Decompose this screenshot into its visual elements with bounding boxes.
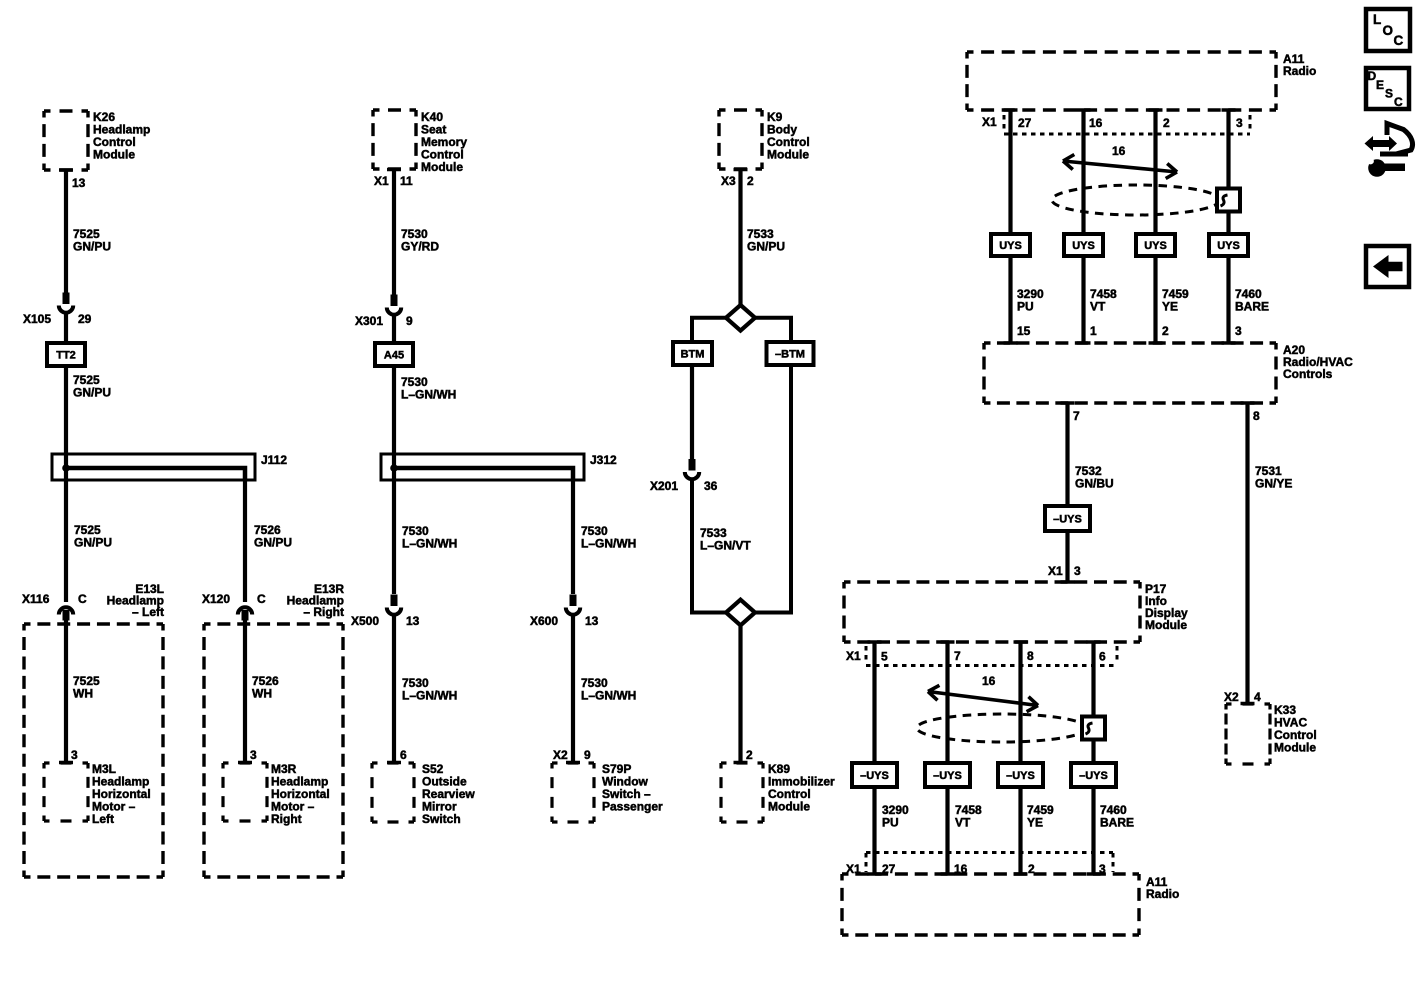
- svg-text:15: 15: [1017, 324, 1031, 338]
- inline code -UYS wire2: [925, 763, 970, 787]
- svg-text:– Right: – Right: [303, 605, 344, 619]
- wire 7526 GN/PU from J112 to X120: [243, 480, 247, 602]
- svg-text:L–GN/WH: L–GN/WH: [401, 388, 456, 402]
- svg-text:GN/PU: GN/PU: [73, 386, 111, 400]
- wire 7460 BARE from A11 pin 3: [1222, 108, 1236, 112]
- wire 3290 PU from P17 pin 5: [868, 640, 882, 644]
- module A11 Radio (bottom): [842, 872, 1139, 875]
- svg-text:6: 6: [1099, 650, 1106, 664]
- icon button back arrow: [1366, 246, 1409, 287]
- svg-text:X3: X3: [721, 174, 736, 188]
- module K33 HVAC Control Module: [1226, 702, 1270, 705]
- component E13R Headlamp - Right: [204, 622, 343, 625]
- svg-text:29: 29: [78, 312, 92, 326]
- svg-text:X105: X105: [23, 312, 51, 326]
- svg-text:3: 3: [1235, 324, 1242, 338]
- switch S52 Outside Rearview Mirror Switch: [372, 761, 414, 764]
- svg-text:Module: Module: [768, 800, 810, 814]
- svg-text:7: 7: [1073, 409, 1080, 423]
- svg-text:X500: X500: [351, 614, 379, 628]
- pin 3 of M3L: [59, 761, 73, 765]
- svg-text:3: 3: [1236, 116, 1243, 130]
- pin 6 of S52: [387, 761, 401, 765]
- svg-text:6: 6: [400, 748, 407, 762]
- inline code -UYS wire4: [1071, 763, 1116, 787]
- splice diamond upper: [726, 305, 755, 331]
- svg-text:GN/PU: GN/PU: [747, 240, 785, 254]
- wire 7525 GN/PU from J112 to X116: [64, 468, 68, 602]
- module K40 Seat Memory Control Module: [373, 108, 416, 111]
- svg-text:X201: X201: [650, 479, 678, 493]
- svg-text:E: E: [1376, 78, 1384, 92]
- svg-text:GN/PU: GN/PU: [73, 240, 111, 254]
- svg-text:16: 16: [1089, 116, 1103, 130]
- svg-text:16: 16: [982, 674, 996, 688]
- module P17 Info Display Module: [844, 580, 1140, 583]
- wire 7459 YE from A11 pin 2: [1149, 108, 1163, 112]
- connector X116 pin C: [63, 610, 70, 621]
- svg-text:L–GN/WH: L–GN/WH: [402, 689, 457, 703]
- component E13L Headlamp - Left: [24, 622, 163, 625]
- inline connector TT2: [47, 343, 85, 366]
- pin 3 of M3R: [238, 761, 252, 765]
- icon harness arrows and wrench: [1365, 136, 1398, 151]
- wire 7531 GN/YE from A20 pin 8 to K33: [1245, 403, 1249, 704]
- svg-text:X301: X301: [355, 314, 383, 328]
- inline code BTM: [673, 342, 712, 365]
- svg-text:8: 8: [1027, 649, 1034, 663]
- wire 7530 GY/RD from K40 to X301: [392, 170, 396, 296]
- svg-text:13: 13: [585, 614, 599, 628]
- svg-text:X1: X1: [846, 649, 861, 663]
- inline code -UYS wire1: [852, 763, 897, 787]
- svg-text:C: C: [257, 592, 266, 606]
- svg-text:7: 7: [954, 649, 961, 663]
- wire 7533 L-GN/VT from X201 to splice diamond: [692, 479, 727, 613]
- svg-text:16: 16: [1112, 144, 1126, 158]
- svg-text:Module: Module: [1274, 741, 1316, 755]
- connector X120 pin C: [242, 610, 249, 621]
- svg-text:PU: PU: [882, 816, 899, 830]
- svg-text:Right: Right: [271, 812, 302, 826]
- svg-text:BTM: BTM: [681, 349, 705, 361]
- svg-text:13: 13: [406, 614, 420, 628]
- switch S79P Window Switch - Passenger: [552, 761, 594, 764]
- wire from diamond to K89 pin 2: [738, 624, 742, 763]
- wire 7460 BARE from P17 pin 6: [1087, 640, 1101, 644]
- connector strip X1 of A11: [1004, 133, 1250, 136]
- svg-text:Radio: Radio: [1283, 64, 1316, 78]
- wire 7530 L-GN/WH from A45 to J312: [392, 366, 396, 470]
- connector X301 pin 9: [391, 295, 398, 307]
- svg-text:Module: Module: [1145, 618, 1187, 632]
- svg-text:1: 1: [1090, 324, 1097, 338]
- svg-text:WH: WH: [73, 687, 93, 701]
- wire to A11 pin 3: [1091, 787, 1095, 874]
- splice pack J312: [381, 454, 584, 480]
- svg-text:UYS: UYS: [1072, 240, 1095, 252]
- svg-text:9: 9: [584, 748, 591, 762]
- svg-text:BARE: BARE: [1235, 300, 1269, 314]
- svg-text:YE: YE: [1027, 816, 1043, 830]
- svg-text:BARE: BARE: [1100, 816, 1134, 830]
- wire 7533 GN/PU from K9 to splice diamond: [738, 170, 742, 307]
- wire to A20 pin 3: [1226, 256, 1230, 343]
- wire 7526 WH from X120 to M3R: [243, 619, 247, 763]
- svg-text:L: L: [1373, 12, 1381, 27]
- wire to A20 pin 1: [1081, 256, 1085, 343]
- svg-text:2: 2: [746, 748, 753, 762]
- svg-text:Radio: Radio: [1146, 887, 1179, 901]
- svg-text:GN/BU: GN/BU: [1075, 477, 1114, 491]
- wire from BTM to X201: [690, 363, 694, 460]
- svg-text:YE: YE: [1162, 300, 1178, 314]
- module K9 Body Control Module: [719, 108, 762, 111]
- inline code -UYS mid: [1045, 506, 1090, 531]
- connector strip X1 of P17: [866, 664, 1117, 667]
- svg-text:–BTM: –BTM: [775, 349, 805, 361]
- svg-text:O: O: [1383, 23, 1394, 38]
- inline code UYS wire3: [1136, 234, 1175, 256]
- connector X201 pin 36: [689, 459, 696, 471]
- svg-text:Passenger: Passenger: [602, 800, 663, 814]
- wire 7459 YE from P17 pin 8: [1014, 640, 1028, 644]
- pin X3 2 of K9: [734, 168, 748, 172]
- module A20 Radio/HVAC Controls: [984, 341, 1276, 344]
- svg-text:3: 3: [250, 748, 257, 762]
- pin 8 of A20: [1241, 401, 1255, 405]
- wire from -UYS to P17 pin X1 3: [1065, 531, 1069, 582]
- svg-text:C: C: [1394, 33, 1404, 48]
- svg-text:36: 36: [704, 479, 718, 493]
- twisted pair arrow 16 (bottom): [928, 692, 1038, 706]
- svg-text:X1: X1: [1048, 564, 1063, 578]
- module K89 Immobilizer Control Module: [721, 761, 763, 764]
- svg-text:4: 4: [1254, 690, 1261, 704]
- svg-text:X2: X2: [553, 748, 568, 762]
- splice pack J112: [52, 454, 255, 480]
- connector strip X1 of A11 (bottom): [866, 851, 1113, 854]
- svg-text:L–GN/WH: L–GN/WH: [402, 537, 457, 551]
- svg-text:A45: A45: [384, 350, 404, 362]
- svg-text:–UYS: –UYS: [933, 770, 962, 782]
- svg-text:C: C: [78, 592, 87, 606]
- svg-text:–UYS: –UYS: [1006, 770, 1035, 782]
- wire 7530 L-GN/WH from X600 to S79P: [571, 615, 575, 763]
- wire 3290 PU from A11 pin 27: [1004, 108, 1018, 112]
- wire 7458 VT from P17 pin 7: [941, 640, 955, 644]
- splice diamond lower: [726, 600, 755, 626]
- wire 7525 WH from X116 to M3L: [64, 619, 68, 763]
- inline code -BTM: [767, 342, 814, 365]
- svg-text:– Left: – Left: [132, 605, 164, 619]
- motor M3L Headlamp Horizontal Motor - Left: [44, 761, 88, 764]
- motor M3R Headlamp Horizontal Motor - Right: [223, 761, 267, 764]
- svg-text:UYS: UYS: [999, 240, 1022, 252]
- wire 7532 GN/BU from A20 pin 7: [1065, 403, 1069, 507]
- inline code UYS wire2: [1064, 234, 1103, 256]
- inline code -UYS wire3: [998, 763, 1043, 787]
- twisted pair arrow 16 (top): [1063, 161, 1177, 172]
- svg-text:Module: Module: [93, 148, 135, 162]
- inline code UYS wire4: [1209, 234, 1248, 256]
- wire 7530 L-GN/WH from J312 to X600: [571, 480, 575, 594]
- shield ellipse (top): [1052, 185, 1220, 215]
- wire to A11 pin 2: [1018, 787, 1022, 874]
- wire to BTM branch left: [692, 318, 726, 344]
- svg-text:Controls: Controls: [1283, 367, 1333, 381]
- svg-text:3: 3: [71, 748, 78, 762]
- svg-text:C: C: [1394, 95, 1403, 109]
- svg-text:X120: X120: [202, 592, 230, 606]
- wire 7458 VT from A11 pin 16: [1077, 108, 1091, 112]
- svg-text:J112: J112: [261, 453, 287, 467]
- svg-text:GY/RD: GY/RD: [401, 240, 439, 254]
- svg-text:9: 9: [406, 314, 413, 328]
- wire 7530 L-GN/WH from J312 to X500: [392, 468, 396, 594]
- wire 7525 GN/PU from K26 pin 13 to X105: [64, 170, 68, 293]
- svg-text:11: 11: [400, 174, 413, 188]
- svg-text:13: 13: [72, 176, 86, 190]
- svg-text:3: 3: [1074, 564, 1081, 578]
- svg-text:TT2: TT2: [56, 350, 76, 362]
- inline code UYS wire1: [991, 234, 1030, 256]
- svg-text:X2: X2: [1224, 690, 1239, 704]
- svg-text:WH: WH: [252, 687, 272, 701]
- svg-text:UYS: UYS: [1144, 240, 1167, 252]
- connector X500 pin 13: [391, 595, 398, 607]
- svg-text:Left: Left: [92, 812, 114, 826]
- svg-text:GN/PU: GN/PU: [254, 536, 292, 550]
- svg-text:2: 2: [1162, 324, 1169, 338]
- svg-text:L–GN/VT: L–GN/VT: [700, 539, 751, 553]
- svg-text:J312: J312: [590, 453, 617, 467]
- connector X600 pin 13: [570, 595, 577, 607]
- svg-text:8: 8: [1253, 409, 1260, 423]
- svg-text:2: 2: [747, 174, 754, 188]
- wire to A11 pin 27: [872, 787, 876, 874]
- pin X1 11 of K40: [387, 168, 401, 172]
- svg-text:2: 2: [1163, 116, 1170, 130]
- svg-text:GN/PU: GN/PU: [74, 536, 112, 550]
- svg-text:S: S: [1385, 87, 1393, 101]
- svg-text:X1: X1: [374, 174, 389, 188]
- svg-text:27: 27: [1018, 116, 1032, 130]
- svg-text:–UYS: –UYS: [1079, 770, 1108, 782]
- svg-text:GN/YE: GN/YE: [1255, 477, 1292, 491]
- svg-text:VT: VT: [955, 816, 971, 830]
- svg-text:Switch: Switch: [422, 812, 461, 826]
- pin 2 of K89: [734, 761, 748, 765]
- svg-text:X1: X1: [982, 115, 997, 129]
- wire from X301 to A45: [392, 315, 396, 344]
- svg-text:VT: VT: [1090, 300, 1106, 314]
- svg-text:5: 5: [881, 650, 888, 664]
- svg-text:Module: Module: [767, 148, 809, 162]
- svg-text:L–GN/WH: L–GN/WH: [581, 689, 636, 703]
- wire to -BTM branch right: [755, 318, 791, 344]
- wire to A20 pin 15: [1008, 256, 1012, 343]
- svg-text:–UYS: –UYS: [1053, 514, 1082, 526]
- connector X105 pin 29: [63, 293, 70, 305]
- wire 7530 L-GN/WH from X500 to S52: [392, 615, 396, 763]
- shield ellipse (bottom): [917, 714, 1087, 742]
- svg-text:UYS: UYS: [1217, 240, 1240, 252]
- icon button DESC: [1366, 68, 1409, 109]
- icon button LOC: [1366, 9, 1410, 51]
- svg-text:L–GN/WH: L–GN/WH: [581, 537, 636, 551]
- pin X2 9 of S79P: [566, 761, 580, 765]
- svg-text:X600: X600: [530, 614, 558, 628]
- inline connector A45: [375, 343, 413, 366]
- pin 13 of K26: [59, 168, 73, 172]
- svg-text:Module: Module: [421, 160, 463, 174]
- svg-text:X116: X116: [22, 592, 50, 606]
- wire 7525 GN/PU from TT2 to J112: [64, 366, 68, 470]
- wire to A20 pin 2: [1153, 256, 1157, 343]
- wire from X105 to TT2: [64, 313, 68, 344]
- pin 7 of A20: [1061, 401, 1075, 405]
- wire to A11 pin 16: [945, 787, 949, 874]
- module A11 Radio (top): [967, 50, 1276, 53]
- svg-text:PU: PU: [1017, 300, 1034, 314]
- svg-text:–UYS: –UYS: [860, 770, 889, 782]
- wire from -BTM to splice diamond: [754, 363, 791, 613]
- module K26 Headlamp Control Module: [44, 109, 88, 112]
